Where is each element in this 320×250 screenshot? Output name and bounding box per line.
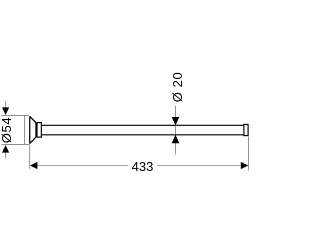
svg-text:Ø 20: Ø 20 (170, 72, 185, 103)
svg-text:Ø54: Ø54 (0, 117, 14, 143)
svg-text:433: 433 (132, 159, 154, 174)
